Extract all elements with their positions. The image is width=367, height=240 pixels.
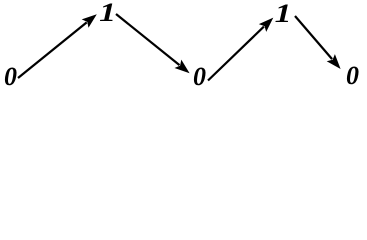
svg-text:1: 1	[99, 0, 116, 27]
arrow A1 rising (0 to 1): arrowhead	[82, 14, 97, 28]
bit label 1 (second)	[99, 0, 116, 27]
svg-text:1: 1	[275, 0, 292, 28]
arrow A3 rising (0 to 1): arrowhead	[259, 18, 274, 32]
arrow A3 rising (0 to 1): shaft	[208, 27, 264, 81]
arrow A1 rising (0 to 1): shaft	[18, 22, 87, 78]
bit label 1 (fourth)	[275, 0, 292, 28]
svg-text:0: 0	[193, 62, 206, 91]
arrow A4 falling (1 to 0): shaft	[295, 16, 332, 59]
arrow A2 falling (1 to 0): arrowhead	[175, 60, 190, 74]
svg-text:0: 0	[346, 61, 359, 90]
arrow A2 falling (1 to 0): shaft	[116, 14, 180, 65]
svg-text:0: 0	[4, 62, 17, 91]
arrow A4 falling (1 to 0): arrowhead	[327, 54, 341, 69]
